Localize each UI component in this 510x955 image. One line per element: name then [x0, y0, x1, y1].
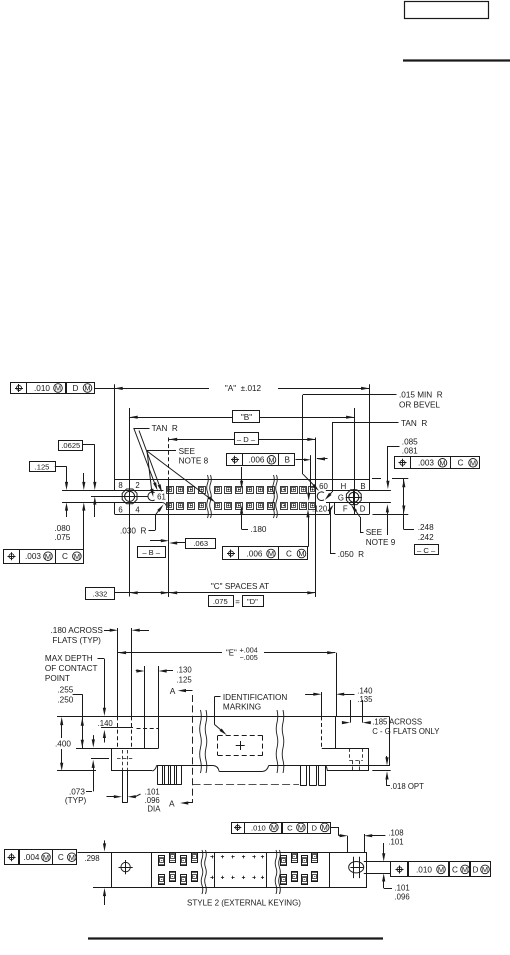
svg-text:POINT: POINT: [45, 674, 70, 683]
svg-text:M: M: [298, 549, 304, 558]
svg-text:M: M: [55, 384, 61, 393]
dim "B" (hole centers): [130, 411, 355, 423]
svg-text:SEE: SEE: [366, 528, 383, 537]
mounting post: [122, 771, 128, 803]
svg-text:=: =: [235, 598, 240, 607]
dim .140/.135 (ear): [305, 687, 373, 704]
dim .080/.075: [54, 473, 85, 549]
svg-text:M: M: [45, 552, 51, 561]
svg-text:.006: .006: [249, 456, 265, 465]
svg-text:8: 8: [118, 481, 122, 490]
svg-text:.242: .242: [418, 533, 434, 542]
svg-text:FLATS (TYP): FLATS (TYP): [52, 636, 101, 645]
right keyway arc: [317, 492, 324, 501]
dim .101/.096 DIA: [107, 787, 162, 813]
svg-text:"D": "D": [247, 597, 258, 606]
ext lines ellipse top/bottom: [364, 862, 394, 874]
label .050 R: [328, 505, 365, 559]
svg-text:.003: .003: [418, 459, 434, 468]
svg-text:F: F: [343, 505, 348, 514]
svg-text:.250: .250: [57, 696, 73, 705]
break lines bottom view pair 1: [201, 850, 206, 894]
svg-text:.140: .140: [98, 719, 114, 728]
svg-text:A: A: [169, 798, 175, 808]
contact cavity floor line: [76, 748, 159, 750]
svg-text:"B": "B": [241, 413, 252, 422]
ext line left end (A): [114, 384, 116, 479]
svg-text:.004: .004: [24, 853, 40, 862]
label IDENTIFICATION MARKING: [214, 693, 287, 735]
label .120: [312, 504, 328, 513]
break lines right pair (top view): [273, 475, 278, 518]
keying notch (.120): [330, 502, 335, 514]
svg-text:.063: .063: [193, 539, 208, 548]
svg-text:.135: .135: [357, 695, 373, 704]
svg-text:M: M: [268, 455, 274, 464]
dim "A" +/-.012: [94, 384, 369, 393]
slot edge lines left: [62, 491, 166, 506]
right ear hidden box: [322, 716, 336, 748]
svg-text:.081: .081: [402, 447, 418, 456]
fcf position .004 M C M (left): [5, 850, 77, 865]
svg-text:M: M: [470, 458, 476, 467]
pin number 8: [118, 481, 122, 490]
right hole centerline vertical: [354, 480, 356, 516]
svg-text:D: D: [473, 865, 479, 874]
dim -D- basic: [169, 433, 316, 445]
pin number 60: [319, 482, 328, 491]
right ear outline: [322, 716, 391, 771]
foot hidden hole dashed: [117, 750, 133, 771]
svg-text:.0625: .0625: [61, 441, 80, 450]
bar bottom profile: [157, 766, 390, 772]
svg-text:D: D: [360, 505, 366, 514]
svg-text:.180 ACROSS: .180 ACROSS: [51, 626, 104, 635]
svg-text:STYLE 2 (EXTERNAL KEYING): STYLE 2 (EXTERNAL KEYING): [187, 898, 301, 907]
svg-text:.010: .010: [251, 823, 266, 832]
svg-text:IDENTIFICATION: IDENTIFICATION: [223, 693, 288, 702]
contact squares (top view, 2 rows x 14): [167, 487, 316, 510]
svg-text:6: 6: [118, 506, 122, 515]
connector body outline (top view): [115, 480, 370, 515]
svg-text:B: B: [360, 482, 365, 491]
svg-text:2: 2: [135, 481, 139, 490]
bottom view contacts group 1: [159, 853, 198, 885]
ext line last contact column: [315, 438, 317, 480]
svg-text:C: C: [58, 853, 64, 862]
svg-text:C: C: [452, 865, 458, 874]
svg-text:.332: .332: [93, 589, 108, 598]
guide wall line 3: [144, 666, 146, 748]
dim .248/.242 and -C-: [402, 479, 438, 555]
svg-text:C: C: [62, 552, 68, 561]
datum -B- flag: [138, 539, 170, 557]
pin letter H: [341, 482, 347, 491]
ext line last contact column (lower): [315, 480, 317, 598]
svg-text:.108: .108: [388, 829, 403, 838]
dim .130/.125: [136, 666, 193, 685]
divider line 1: [151, 852, 153, 887]
svg-text:.255: .255: [57, 686, 73, 695]
dim .400: [55, 717, 71, 771]
contact tails group 2: [300, 766, 326, 786]
label SEE NOTE 9: [351, 505, 396, 548]
dim .108/.101: [364, 829, 404, 847]
svg-text:.101: .101: [395, 884, 410, 893]
dim .018 OPT: [385, 756, 424, 791]
left mounting hole: [122, 488, 138, 504]
break lines bottom view pair 2: [275, 850, 280, 894]
contact tails group 1: [158, 766, 182, 785]
slot edge lines right: [326, 491, 391, 503]
section line A-A: [169, 686, 192, 808]
svg-text:.085: .085: [402, 438, 418, 447]
bottom view hole left: [119, 860, 133, 874]
slot centerline left: [91, 496, 149, 498]
divider line 3: [266, 852, 268, 887]
dim .180 ACROSS FLATS: [51, 626, 150, 645]
svg-text:61: 61: [157, 493, 166, 502]
svg-text:M: M: [74, 552, 80, 561]
ext line bottom left: [57, 770, 96, 772]
svg-text:– B –: – B –: [142, 548, 161, 557]
svg-text:.010: .010: [416, 865, 432, 874]
label MAX DEPTH OF CONTACT POINT: [45, 654, 105, 683]
svg-text:TAN R: TAN R: [152, 424, 178, 433]
svg-text:M: M: [84, 384, 90, 393]
dim .332: [86, 588, 170, 600]
svg-text:NOTE 9: NOTE 9: [366, 538, 396, 547]
svg-text:SEE: SEE: [179, 447, 196, 456]
pin letter G: [338, 494, 344, 503]
svg-text:−.005: −.005: [240, 653, 258, 662]
svg-text:M: M: [271, 823, 277, 832]
dim .101/.096 (keying hole): [382, 843, 410, 902]
ext line first contact column (dashed above): [168, 438, 170, 480]
svg-text:MAX DEPTH: MAX DEPTH: [45, 654, 93, 663]
header rule top right: [403, 59, 510, 61]
fcf position .010 M C M D M (top): [232, 823, 348, 838]
footer rule bottom: [88, 937, 383, 939]
divider line 2: [214, 852, 216, 887]
dim .085/.081: [386, 438, 418, 490]
ext line left hole center (lower): [129, 575, 131, 596]
svg-text:.130: .130: [177, 666, 193, 675]
guide wall line 4: [158, 666, 160, 748]
svg-text:.096: .096: [395, 893, 410, 902]
right mounting hole: [346, 489, 362, 505]
svg-text:C: C: [286, 549, 292, 558]
fcf position .010 M D M (top left): [11, 383, 95, 394]
dim .063: [169, 539, 216, 549]
title block box top right: [405, 2, 489, 19]
svg-text:.018 OPT: .018 OPT: [391, 782, 425, 791]
dim .298: [84, 840, 106, 905]
svg-text:DIA: DIA: [147, 804, 161, 813]
break lines left pair (top view): [207, 475, 212, 518]
label TAN R (left): [134, 424, 178, 493]
dim .255/.250: [57, 686, 84, 748]
svg-text:.050 R: .050 R: [338, 550, 364, 559]
svg-text:M: M: [69, 853, 75, 862]
svg-text:60: 60: [319, 482, 328, 491]
svg-text:D: D: [311, 823, 317, 832]
arrow down at last contact: [307, 493, 310, 501]
svg-text:H: H: [341, 482, 347, 491]
pin number 61: [157, 493, 166, 502]
svg-text:B: B: [284, 456, 290, 465]
ext line left hole center: [129, 408, 131, 480]
arrow up at row2 (right): [386, 504, 389, 535]
svg-text:.003: .003: [25, 552, 41, 561]
svg-text:.298: .298: [84, 854, 99, 863]
ext line right hole center: [354, 408, 356, 480]
svg-text:C - G FLATS ONLY: C - G FLATS ONLY: [372, 727, 440, 736]
svg-text:.015 MIN R: .015 MIN R: [399, 391, 443, 400]
pin number 4: [135, 506, 140, 515]
ext bottom edge right: [373, 514, 409, 516]
fcf position .003 M C M (right): [395, 457, 480, 469]
break lines left pair (side view): [200, 710, 207, 773]
svg-text:"A" ±.012: "A" ±.012: [225, 384, 262, 393]
pin number 2: [135, 481, 139, 490]
ext line right end (A): [369, 384, 371, 479]
short ext line x311: [310, 455, 312, 490]
left keyway arc: [148, 492, 155, 501]
max depth leader arrow: [103, 659, 106, 716]
right ear boss lines: [322, 653, 337, 717]
svg-text:.180: .180: [251, 525, 267, 534]
svg-text:.006: .006: [247, 549, 263, 558]
fcf position .006 M C M (bottom): [223, 509, 310, 559]
ear hidden hole dashed: [349, 748, 362, 771]
svg-text:.080: .080: [54, 524, 70, 533]
pin letter B: [360, 482, 365, 491]
svg-text:M: M: [43, 853, 49, 862]
svg-text:M: M: [462, 865, 468, 874]
dim "C" SPACES AT .075 = "D": [169, 582, 316, 607]
dim .140 (cavity): [98, 719, 133, 743]
dim "E" +.004/-.005: [118, 646, 336, 663]
svg-text:– D –: – D –: [237, 435, 256, 444]
svg-text:M: M: [438, 865, 444, 874]
caption STYLE 2 (EXTERNAL KEYING): [187, 898, 301, 907]
svg-text:G: G: [338, 494, 344, 503]
svg-text:A: A: [170, 686, 176, 696]
label SEE NOTE 8: [147, 447, 216, 503]
svg-text:.101: .101: [388, 838, 403, 847]
fcf position .010 M C M D M (right): [391, 862, 491, 877]
bottom view keying slot (ellipse): [349, 857, 364, 878]
svg-text:OF CONTACT: OF CONTACT: [45, 664, 98, 673]
svg-text:NOTE 8: NOTE 8: [179, 457, 209, 466]
svg-text:M: M: [482, 865, 488, 874]
dim .073 (TYP): [65, 735, 109, 805]
svg-text:"E": "E": [226, 649, 237, 658]
break lines right pair (side view): [276, 710, 284, 773]
dim .0625: [59, 441, 97, 518]
dim .180: [240, 467, 267, 534]
cavity step dashed: [137, 728, 159, 730]
fcf position .006 M B: [227, 454, 312, 466]
svg-text:C: C: [287, 823, 293, 832]
ext line first contact column (lower): [168, 480, 170, 598]
label TAN R (right): [325, 419, 428, 500]
svg-text:M: M: [322, 823, 328, 832]
phantom line (bottom): [193, 784, 300, 786]
left hole centerline vertical: [129, 480, 131, 597]
identification marking box: [218, 736, 263, 756]
svg-text:MARKING: MARKING: [223, 703, 261, 712]
svg-text:.185 ACROSS: .185 ACROSS: [372, 717, 422, 726]
fcf position .003 M C M (left): [4, 550, 84, 564]
svg-text:4: 4: [135, 506, 140, 515]
svg-text:.010: .010: [34, 384, 50, 393]
dim .185 ACROSS C-G FLATS: [342, 700, 440, 736]
facing arrow right of fcf B: [317, 457, 328, 460]
svg-text:M: M: [298, 823, 304, 832]
guide wall line 1: [117, 628, 119, 748]
label .030 R: [120, 505, 164, 536]
left mounting foot: [112, 749, 157, 771]
svg-text:.125: .125: [177, 676, 193, 685]
pin number 6: [118, 506, 122, 515]
svg-text:.248: .248: [418, 523, 434, 532]
svg-text:.075: .075: [54, 533, 70, 542]
svg-text:.030 R: .030 R: [120, 527, 146, 536]
svg-text:C: C: [458, 459, 464, 468]
guide wall line 2: [131, 628, 133, 748]
bottom view center dots: [210, 855, 264, 879]
pin letter D: [360, 505, 366, 514]
svg-text:D: D: [73, 384, 79, 393]
svg-text:OR BEVEL: OR BEVEL: [399, 401, 440, 410]
ext top edge right (gapped): [372, 478, 408, 480]
ext lines keying slot width: [348, 834, 365, 852]
svg-text:M: M: [439, 458, 445, 467]
svg-text:– C –: – C –: [417, 546, 436, 555]
dim .125: [30, 462, 69, 518]
bottom view contacts group 2: [281, 853, 318, 885]
svg-text:M: M: [268, 549, 274, 558]
svg-text:TAN R: TAN R: [401, 419, 427, 428]
svg-text:.075: .075: [213, 597, 228, 606]
side view top surface: [57, 716, 389, 718]
svg-text:.125: .125: [35, 463, 50, 472]
label .015 MIN R OR BEVEL: [303, 391, 443, 492]
svg-text:.400: .400: [55, 740, 71, 749]
bottom view body outline: [78, 852, 368, 887]
divider line 4: [329, 852, 331, 887]
svg-text:(TYP): (TYP): [65, 796, 87, 805]
pin letter F: [343, 505, 348, 514]
svg-text:"C" SPACES AT: "C" SPACES AT: [211, 582, 269, 591]
